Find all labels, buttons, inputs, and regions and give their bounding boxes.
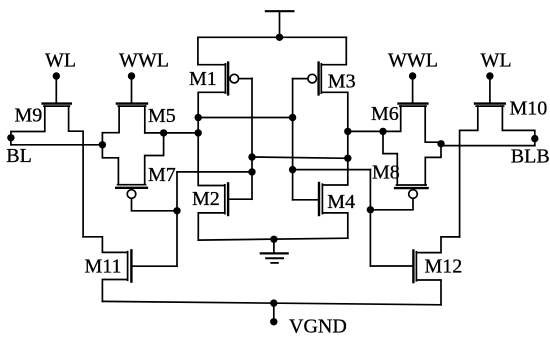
transistor M8 gate bar [395,187,428,189]
transistor M2 gate bar [227,183,229,215]
svg-text:BL: BL [6,145,32,167]
wire M4 source leg to ground bar [322,213,347,238]
wire BLB line [441,145,535,147]
svg-text:M12: M12 [425,255,463,277]
node WWL right terminal dot [409,72,416,79]
transistor M10 channel [476,105,503,107]
node VGND terminal dot [270,318,277,325]
node dot gate column left [248,153,255,160]
wire M8 gate lead [370,199,413,210]
wire M1 gate lead [239,78,252,80]
svg-text:WWL: WWL [388,50,438,72]
svg-text:VGND: VGND [289,316,347,337]
wire M9 right leg down to M11 [69,106,84,237]
wire M12 source leg [416,280,441,305]
transistor M1 gate bubble (PMOS) [230,74,239,83]
svg-text:M2: M2 [192,188,220,210]
svg-text:M3: M3 [328,71,356,93]
wire VGND rail [102,301,441,304]
node BL junction dot [99,141,106,148]
svg-text:M9: M9 [15,105,43,127]
node dot on QB column [344,155,351,162]
wire M9 left leg to BL [11,106,45,145]
transistor M7 gate bubble (PMOS) [127,190,136,199]
node Q dot upper [195,114,202,121]
wire M5 gate stem [131,76,133,102]
transistor M4 gate bar [318,183,320,215]
node M5/M7 dot [160,129,167,136]
transistor M3 gate bubble (PMOS) [308,74,317,83]
ground symbol [261,239,288,263]
transistor M3 gate bar [317,63,319,95]
transistor M5 gate bar [117,102,147,104]
node ground dot [270,236,277,243]
wire VDD stem [279,11,281,37]
transistor M1 channel [224,64,226,93]
wire M6 right leg [425,106,441,146]
node dot at M3 gate column [289,114,296,121]
wire M12 drain staircase [416,237,459,253]
transistor M12 channel [415,252,417,281]
node WL left terminal dot [53,72,60,79]
wire M2 gate lead [228,198,252,200]
wire BL line [11,144,103,146]
transistor M8 channel [397,184,427,186]
wire M7 gate branch line [177,171,252,173]
transistor M6 channel [400,105,426,107]
wire link QB to M6/M8 node [348,130,383,132]
transistor M9 gate bar [43,102,71,104]
wire M7 left leg [102,145,118,185]
wire cross-couple line to QB [252,157,348,158]
wire M2 source leg to ground bar [198,213,225,240]
svg-text:WWL: WWL [119,50,169,72]
wire M10 left leg down to M12 [460,106,478,237]
node VGND rail dot [270,299,277,306]
wire Q-side gate column (gates of M3,M4) [292,79,294,200]
wire M10 gate stem [489,76,491,102]
transistor M5 channel [118,105,145,107]
node M6/M8 dot [379,128,386,135]
node VDD junction dot [276,34,283,41]
wire M7 right leg [145,133,164,185]
node Q dot lower [195,129,202,136]
svg-text:M5: M5 [148,105,176,127]
wire QB-side gate column (gates of M1,M2) [251,78,253,199]
wire M10 right leg to BLB [502,106,534,146]
transistor M3 channel [320,64,322,93]
wire M11 source leg [102,280,127,302]
wire ground bar [198,238,347,240]
wire M8 gate branch line [293,169,371,171]
transistor M11 gate bar [130,250,132,281]
transistor M7 gate bar [116,187,147,189]
wire M11 drain staircase [83,237,128,253]
wire M5 right leg [144,106,146,133]
node BL terminal dot [7,134,14,141]
node dot M2/M7 gate join [248,168,255,175]
svg-text:M11: M11 [85,255,122,277]
wire M7/M11 gate column [176,172,178,266]
wire VGND stem [273,303,275,322]
node dot M8 gate branch [289,166,296,173]
svg-text:M6: M6 [371,103,399,125]
transistor M11 channel [127,252,129,281]
wire M8/M12 gate column [369,170,371,266]
svg-text:WL: WL [481,50,512,72]
VDD terminal bar [266,10,294,12]
svg-text:M7: M7 [148,164,176,186]
transistor M9 channel [44,105,69,107]
svg-text:M10: M10 [510,98,548,120]
transistor M8 gate bubble (PMOS) [409,190,418,199]
svg-text:M4: M4 [327,191,355,213]
wire M1 drain leg, node Q vertical, M2 drain leg [198,92,225,185]
wire M12 gate lead [370,265,413,267]
node WL right terminal dot [486,72,493,79]
wire M8 right leg [425,146,441,185]
node QB dot upper [344,128,351,135]
wire M3 drain leg, node QB vertical, M4 drain leg [321,92,348,185]
wire node link to Q [145,132,198,134]
wire M3 source riser and top leg [321,37,346,64]
node BLB junction dot [437,140,444,147]
wire M3 gate lead [293,78,308,80]
transistor M12 gate bar [412,251,414,283]
wire cross-couple line Q to M3/M4 gates [198,117,292,119]
wire VDD rail [198,36,346,38]
node BLB terminal dot [531,135,538,142]
wire M6 left leg [383,106,401,131]
wire M1 source riser and top leg [198,37,226,64]
transistor M7 channel [118,184,146,186]
wire M9 gate stem [55,76,57,102]
wire M7 gate lead [132,199,178,211]
svg-text:M8: M8 [372,162,400,184]
node WWL left terminal dot [128,72,135,79]
node M8 gate dot [367,206,374,213]
transistor M10 gate bar [475,102,505,104]
wire M5 left leg [102,106,119,145]
transistor M2 channel [224,185,226,214]
wire M4 gate lead [293,199,319,201]
svg-text:M1: M1 [189,68,217,90]
transistor M1 gate bar [227,63,229,95]
wire M6 gate stem [412,76,414,102]
wire M11 gate lead [131,265,177,267]
transistor M6 gate bar [399,102,428,104]
svg-text:BLB: BLB [511,145,550,167]
node M7 gate dot [173,207,180,214]
transistor M4 channel [321,184,323,213]
wire M8 left leg [383,131,397,185]
svg-text:WL: WL [45,50,76,72]
